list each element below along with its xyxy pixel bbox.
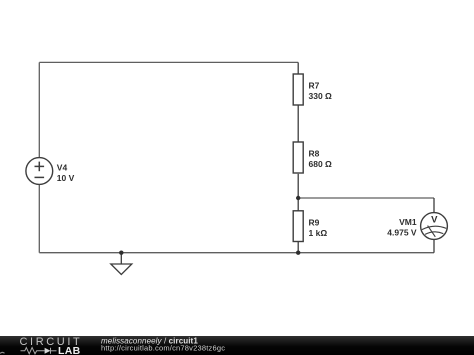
svg-text:10 V: 10 V xyxy=(57,173,75,183)
resistor R9 xyxy=(293,211,303,242)
junction node R9 bottom rail xyxy=(296,251,300,255)
svg-text:4.975 V: 4.975 V xyxy=(387,227,417,237)
resistor R7 xyxy=(293,74,303,105)
svg-text:V4: V4 xyxy=(57,163,68,173)
wire: left rail upper vertical xyxy=(38,62,40,158)
footer corner mark xyxy=(0,352,5,353)
wire: bottom rail horizontal xyxy=(39,252,434,254)
svg-text:680 Ω: 680 Ω xyxy=(309,159,333,169)
svg-text:R7: R7 xyxy=(309,81,320,91)
wire: voltmeter branch horizontal xyxy=(298,197,434,199)
label R8 value xyxy=(309,149,333,170)
svg-text:1 kΩ: 1 kΩ xyxy=(309,228,328,238)
footer bar xyxy=(0,336,474,355)
svg-text:330 Ω: 330 Ω xyxy=(309,91,333,101)
junction node ground xyxy=(119,251,123,255)
logo waveform xyxy=(21,348,57,354)
voltage source V4 xyxy=(26,158,53,185)
label R9 value xyxy=(309,218,328,239)
junction node R9 top / voltmeter branch xyxy=(296,196,300,200)
label VM1 value xyxy=(387,217,417,237)
voltmeter VM1 xyxy=(421,213,448,240)
wire: left rail lower vertical xyxy=(38,185,40,253)
resistor R8 xyxy=(293,142,303,173)
label R7 value xyxy=(309,81,333,102)
label V4 value xyxy=(57,163,75,183)
wire: top rail horizontal xyxy=(39,61,298,63)
wire: R8-R9 segment xyxy=(297,174,299,211)
svg-text:VM1: VM1 xyxy=(399,217,417,227)
wire: R9 bottom stub xyxy=(297,242,299,253)
wire: voltmeter top stub xyxy=(433,198,435,213)
svg-text:R9: R9 xyxy=(309,218,320,228)
svg-text:V: V xyxy=(431,215,438,226)
wire: R7-R8 segment xyxy=(297,105,299,142)
svg-text:R8: R8 xyxy=(309,149,320,159)
wire: voltmeter bottom stub xyxy=(433,239,435,252)
ground xyxy=(111,253,132,275)
wire: R7 top stub xyxy=(297,62,299,74)
